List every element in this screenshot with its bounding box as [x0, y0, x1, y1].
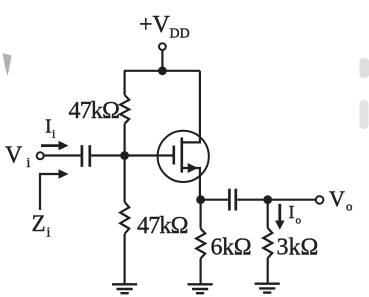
transistor Q1 gate bar [173, 146, 176, 165]
wire: C2 to Vo terminal [237, 199, 316, 201]
ground G3 [255, 284, 280, 293]
svg-text:I: I [289, 202, 295, 222]
capacitor C2 [229, 189, 235, 211]
node: output junction dot (source) [196, 195, 205, 204]
capacitor C1 [82, 145, 90, 167]
transistor Q1 MOSFET circle [158, 131, 209, 182]
svg-text:I: I [45, 116, 52, 138]
svg-text:6kΩ: 6kΩ [211, 235, 252, 261]
label Vi [5, 143, 31, 172]
wire: top supply rail [124, 70, 200, 72]
transistor Q1 channel bar [181, 138, 184, 173]
wire: left branch from rail to R1 [123, 71, 125, 95]
transistor Q1 drain lead [182, 71, 200, 143]
resistor R4 3k [263, 228, 272, 258]
node: VDD junction dot [158, 66, 167, 75]
svg-text:V: V [329, 186, 345, 211]
arrow Io [275, 204, 285, 230]
wire: source node to R3 [200, 200, 202, 229]
terminal +VDD (open circle) [159, 43, 166, 50]
svg-text:i: i [27, 156, 31, 171]
svg-text:o: o [346, 198, 353, 213]
arrow Ii [41, 141, 69, 151]
ground G1 [112, 284, 137, 293]
wire: R4 to ground [267, 258, 269, 284]
transistor Q1 source lead with arrow [182, 163, 200, 200]
label Vo [329, 186, 353, 214]
svg-text:47kΩ: 47kΩ [69, 98, 120, 124]
svg-text:+V: +V [139, 12, 171, 38]
label +VDD [139, 12, 190, 42]
svg-text:i: i [47, 226, 51, 241]
svg-text:DD: DD [170, 27, 190, 42]
svg-text:47kΩ: 47kΩ [137, 213, 188, 239]
label Zi [32, 211, 51, 241]
label Ii [45, 116, 56, 141]
node: gate junction dot [120, 151, 129, 160]
label 6kOhm [211, 235, 252, 261]
resistor R3 6k [196, 229, 205, 259]
wire: gate node to R2 [123, 156, 125, 203]
scan smudge right edge lower [360, 100, 369, 129]
resistor R2 47k (bottom left) [120, 202, 129, 234]
wire: load node to R4 [267, 200, 269, 228]
label 3kOhm [277, 235, 319, 261]
terminal Vo (open circle) [316, 196, 324, 204]
wire: R2 to ground [123, 234, 125, 284]
node: load junction dot [263, 195, 272, 204]
wire: R3 to ground [200, 259, 202, 285]
label Io [289, 202, 302, 227]
wire: source node to C2 [201, 199, 228, 201]
svg-text:V: V [5, 143, 23, 169]
svg-text:3kΩ: 3kΩ [277, 235, 319, 261]
terminal Vi (open circle) [37, 152, 44, 159]
scan smudge left edge [3, 53, 12, 76]
svg-text:Z: Z [32, 211, 46, 236]
wire: C1 to gate [91, 154, 172, 156]
resistor R1 47k (top left) [120, 95, 129, 124]
label 47kOhm R1 [69, 98, 120, 124]
wire: VDD stem [161, 50, 163, 71]
arrow Zi [40, 169, 69, 210]
ground G2 [188, 284, 213, 293]
wire: R1 to gate node [123, 124, 125, 156]
scan smudge right edge upper [360, 58, 369, 78]
wire: Vi to C1 [44, 154, 81, 156]
label 47kOhm R2 [137, 213, 188, 239]
svg-text:o: o [296, 215, 302, 227]
